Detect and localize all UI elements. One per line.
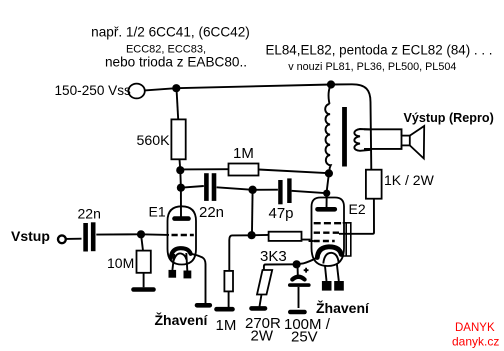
wire node D1 down to node D2 xyxy=(179,170,182,188)
wire node K2 to 270R xyxy=(264,264,297,270)
svg-text:22n: 22n xyxy=(78,206,101,222)
tube E1 heater pin right xyxy=(184,271,192,279)
tube E2 envelope xyxy=(312,198,345,267)
tube E1 envelope xyxy=(168,206,197,264)
resistor 1M grid leak body xyxy=(224,271,233,292)
wire E1 cathode to ground xyxy=(191,254,206,303)
svg-text:E1: E1 xyxy=(149,204,166,220)
label: plus sign of electrolytic xyxy=(304,268,309,273)
ground bar of electrolytic xyxy=(290,310,304,315)
wire 10M to ground xyxy=(143,273,145,288)
tube E2 heater filament arch xyxy=(323,253,338,264)
svg-text:Žhavení: Žhavení xyxy=(155,311,209,328)
wire node NA down to node D3 xyxy=(251,190,254,232)
node NA junction dot xyxy=(248,186,256,194)
speaker magnet box xyxy=(402,136,410,146)
svg-text:Vstup: Vstup xyxy=(11,228,50,244)
capacitor 22n input right plate xyxy=(91,222,96,251)
wire secondary bottom lead to speaker xyxy=(364,145,402,149)
svg-text:např. 1/2 6CC41, (6CC42): např. 1/2 6CC41, (6CC42) xyxy=(91,25,250,40)
svg-text:1M: 1M xyxy=(216,317,237,334)
wire B+ branch to 1K screen resistor xyxy=(331,84,371,169)
node D3 junction dot (E2 grid node) xyxy=(248,231,256,239)
tube E2 heater pin right xyxy=(334,281,344,291)
node G1 junction dot (E1 grid) xyxy=(137,230,145,238)
resistor 560K body xyxy=(171,119,185,159)
svg-text:DANYK: DANYK xyxy=(455,322,495,334)
wire electrolytic to ground xyxy=(298,287,300,308)
wire E2 cathode lead to node K2 xyxy=(297,258,318,265)
tube E1 heater pin left xyxy=(169,270,177,278)
transformer core bar xyxy=(342,107,347,167)
svg-text:EL84,EL82, pentoda z ECL82 (84: EL84,EL82, pentoda z ECL82 (84) . . . xyxy=(265,43,492,58)
wire E2 heater pin right lead xyxy=(337,264,339,282)
resistor 10M body xyxy=(137,251,151,273)
ground bar of 10M xyxy=(134,287,154,292)
terminal: supply input circle xyxy=(128,84,144,99)
tube E2 heater pin left xyxy=(322,281,332,291)
tube E2 cathode arch xyxy=(317,247,341,258)
wire secondary top lead to speaker xyxy=(364,129,402,135)
node A1 junction dot xyxy=(172,84,180,92)
tube E1 cathode arch xyxy=(171,248,191,258)
transformer secondary coil xyxy=(354,129,371,151)
ground bar of 270R xyxy=(252,306,266,311)
wire node D1 to 1M feedback resistor xyxy=(180,168,228,170)
wire node D3 to 3K3 xyxy=(252,234,269,236)
speaker horn xyxy=(410,126,424,159)
wire node G1 to E1 grid xyxy=(141,233,169,236)
wire 560K bottom to node D1 xyxy=(179,159,182,170)
wire 22n to node NA xyxy=(217,187,249,189)
wire 1M grid leak to ground xyxy=(228,291,230,307)
wire node K2 down to electrolytic xyxy=(297,264,299,275)
wire g3 to cathode external link xyxy=(343,223,351,256)
svg-text:47p: 47p xyxy=(269,205,294,222)
svg-text:nebo trioda z EABC80..: nebo trioda z EABC80.. xyxy=(105,55,247,70)
tube E1 heater filament arch xyxy=(173,253,186,262)
svg-text:3K3: 3K3 xyxy=(260,248,287,265)
svg-text:v nouzi PL81, PL36, PL500, PL5: v nouzi PL81, PL36, PL500, PL504 xyxy=(288,61,456,73)
svg-text:1M: 1M xyxy=(233,145,254,162)
svg-text:1K / 2W: 1K / 2W xyxy=(384,172,435,188)
capacitor 47p left plate xyxy=(278,180,282,204)
wire 1M right end to E2 anode node D4 xyxy=(259,170,329,174)
wire 3K3 to E2 control grid xyxy=(302,240,314,241)
ground bar of 1M grid leak xyxy=(217,307,233,312)
wire E1 heater pin left lead xyxy=(172,254,174,270)
transformer primary lead from top node xyxy=(329,85,331,105)
tube E2 suppressor grid g3 dashes xyxy=(314,222,343,224)
wire 22n input to grid node G1 xyxy=(96,233,137,235)
resistor 270R body (slanted) xyxy=(257,270,272,295)
terminal: input jack circle xyxy=(58,235,66,243)
capacitor 22n coupling right plate xyxy=(212,173,217,201)
wire B+ rail to transformer xyxy=(176,85,331,89)
wire E1 heater pin right lead xyxy=(186,253,187,271)
wire transformer primary bottom to node D4 xyxy=(328,172,331,175)
tube E2 anode bar xyxy=(318,207,335,212)
tube E1 anode bar xyxy=(175,216,189,221)
wire 47p to E2 anode node D5 xyxy=(292,191,327,193)
wire 1K bottom to E2 screen grid xyxy=(339,199,374,234)
node top junction dot at transformer xyxy=(327,80,335,88)
resistor 3K3 body xyxy=(269,232,302,241)
tube E1 grid dashes xyxy=(172,234,194,236)
node D5 junction dot xyxy=(323,190,330,197)
wire node D3 to grid leak 1M xyxy=(229,235,251,271)
svg-text:560K: 560K xyxy=(137,133,171,149)
wire supply circle to node A1 xyxy=(145,88,173,90)
resistor 1K body xyxy=(366,170,382,199)
svg-text:10M: 10M xyxy=(107,255,134,271)
svg-text:danyk.cz: danyk.cz xyxy=(452,335,499,349)
svg-text:Žhavení: Žhavení xyxy=(316,299,370,316)
ground bar of E1 cathode xyxy=(197,303,210,308)
wire node G1 down to 10M xyxy=(141,234,143,250)
wire input terminal to 22n input cap xyxy=(66,238,81,240)
capacitor 47p right plate xyxy=(287,178,291,203)
capacitor 100M/25V bottom plate xyxy=(290,283,309,287)
capacitor 100M/25V top plate (curved) xyxy=(292,277,304,280)
wire node D2 to E1 anode xyxy=(180,188,182,217)
transformer primary coil xyxy=(325,104,331,172)
tube E2 control grid g1 dashes xyxy=(314,240,335,242)
svg-text:E2: E2 xyxy=(349,201,366,217)
capacitor 22n input left plate xyxy=(83,223,88,252)
svg-text:22n: 22n xyxy=(199,204,224,221)
wire 270R to ground xyxy=(260,295,262,307)
node D4 junction dot (E2 anode / transformer bottom) xyxy=(325,169,333,177)
wire node D4 down to node D5 (E2 anode) xyxy=(327,173,329,209)
svg-text:2W: 2W xyxy=(251,328,274,345)
resistor 1M feedback body xyxy=(229,164,259,176)
wire node D2 to coupling cap 22n xyxy=(181,186,204,188)
node D2 junction dot (22n tap) xyxy=(177,184,185,192)
wire node NA to 47p xyxy=(253,189,278,191)
wire E2 heater pin left lead xyxy=(325,266,327,281)
node K2 junction dot (E2 cathode node) xyxy=(293,260,301,268)
wire node A1 down to 560K xyxy=(177,89,179,120)
svg-text:25V: 25V xyxy=(291,329,318,346)
svg-text:150-250 Vss: 150-250 Vss xyxy=(55,83,132,98)
tube E2 screen grid g2 dashes xyxy=(314,231,340,233)
node D1 junction dot (E1 anode node) xyxy=(176,166,184,174)
capacitor 22n coupling left plate xyxy=(204,173,209,201)
svg-text:Výstup (Repro): Výstup (Repro) xyxy=(404,111,494,125)
